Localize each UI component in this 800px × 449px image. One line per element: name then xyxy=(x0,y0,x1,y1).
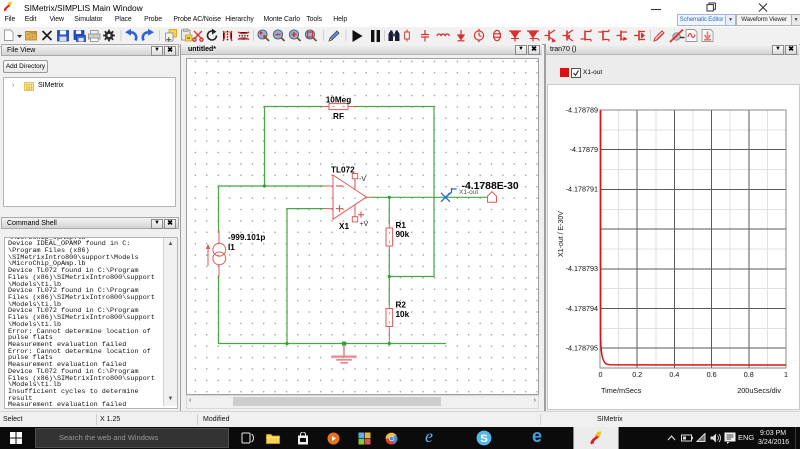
svg-text:-4.178793: -4.178793 xyxy=(566,264,598,273)
zoom area xyxy=(289,30,300,41)
node junction at R1/R2/feedback xyxy=(388,275,391,278)
svg-text:-4.178795: -4.178795 xyxy=(566,344,598,353)
canvas with dot grid xyxy=(186,58,539,395)
fence icon xyxy=(238,32,249,40)
Schematic Editor selector button xyxy=(677,14,726,26)
graph area xyxy=(547,84,800,410)
svg-text:-4.17879: -4.17879 xyxy=(570,145,598,154)
close X xyxy=(43,31,52,40)
SIMetrix active app xyxy=(573,427,619,449)
start button xyxy=(10,432,22,444)
resistor RF xyxy=(322,104,356,110)
npn transistor button xyxy=(545,30,556,42)
svg-text:90k: 90k xyxy=(396,230,410,239)
svg-text:+V: +V xyxy=(360,221,369,228)
pjfet button xyxy=(599,30,610,42)
svg-text:I1: I1 xyxy=(228,243,235,252)
pin -V power pin of X1 xyxy=(354,179,356,190)
window buttons xyxy=(645,2,775,12)
wire feedback top horizontal xyxy=(265,106,323,108)
clock source button xyxy=(474,29,483,42)
zoom out xyxy=(273,30,284,41)
wire I1 vertical xyxy=(218,186,220,231)
node junction R2/ground rail xyxy=(388,342,391,345)
svg-text:-4.178791: -4.178791 xyxy=(566,185,598,194)
op-amp X1 TL072 xyxy=(324,174,370,222)
pencil blue xyxy=(329,31,339,41)
Waveform Viewer selector button xyxy=(736,14,792,26)
wifi xyxy=(696,433,707,442)
probe X1-out (fixed probe marker) xyxy=(442,189,457,202)
save all floppies xyxy=(74,31,86,42)
capacitor button xyxy=(421,30,429,42)
legend xyxy=(560,68,569,77)
svg-text:Time/mSecs: Time/mSecs xyxy=(601,386,642,395)
inductor button xyxy=(437,34,449,36)
sine document icon xyxy=(686,30,697,42)
task view xyxy=(241,432,254,444)
scrollbar xyxy=(163,238,177,406)
ground/source arrow button xyxy=(458,30,465,41)
battery xyxy=(681,434,693,442)
wire feedback right vertical xyxy=(433,107,435,277)
x axis labels xyxy=(599,370,789,379)
paste xyxy=(182,29,193,41)
new document xyxy=(5,30,14,41)
wire ground rail xyxy=(219,343,446,345)
svg-text:0.4: 0.4 xyxy=(669,370,679,379)
copy xyxy=(166,30,177,42)
svg-text:R2: R2 xyxy=(396,301,407,310)
wire feedback bottom horizontal xyxy=(389,276,434,278)
ground xyxy=(333,342,356,363)
gear options xyxy=(103,30,115,42)
igbt button xyxy=(617,31,628,41)
svg-text:0: 0 xyxy=(599,370,603,379)
photos multicolor xyxy=(358,432,371,445)
minor grid xyxy=(600,110,786,368)
media orange xyxy=(327,432,340,445)
resistor R1 xyxy=(386,224,393,251)
undo xyxy=(130,32,136,40)
node junction noninverting/ground rail xyxy=(285,342,288,345)
svg-text:-4.178789: -4.178789 xyxy=(566,105,598,114)
diode button xyxy=(509,31,521,42)
svg-text:R1: R1 xyxy=(396,221,407,230)
chrome xyxy=(385,432,398,445)
resistor R2 xyxy=(386,305,393,343)
red component buttons xyxy=(405,29,645,42)
svg-text:-999.101p: -999.101p xyxy=(228,233,265,242)
wire feedback left vertical xyxy=(264,107,266,187)
wire output xyxy=(371,196,488,198)
major grid xyxy=(600,110,786,368)
redo xyxy=(143,32,149,40)
svg-text:0.8: 0.8 xyxy=(744,370,754,379)
svg-text:-4.178794: -4.178794 xyxy=(566,304,598,313)
wire R1 branch vertical xyxy=(388,197,390,223)
svg-text:-4.1788E-30: -4.1788E-30 xyxy=(462,181,519,192)
svg-text:TL072: TL072 xyxy=(331,166,355,175)
notification xyxy=(724,432,736,444)
probe pencil icon xyxy=(670,30,685,43)
tray chevron xyxy=(667,435,676,441)
pin +V power pin of X1 xyxy=(354,205,356,217)
svg-text:X1-out / E-30V: X1-out / E-30V xyxy=(558,211,565,257)
y axis labels xyxy=(566,105,598,352)
pause xyxy=(371,30,380,42)
svg-text:RF: RF xyxy=(333,112,344,121)
svg-text:10Meg: 10Meg xyxy=(326,96,351,105)
wire non-inverting input vertical xyxy=(286,209,288,344)
zener diode button xyxy=(527,31,540,42)
node junction at output/R1 xyxy=(388,196,391,199)
speaker xyxy=(710,433,721,443)
svg-text:1: 1 xyxy=(784,370,788,379)
schematic h-scrollbar xyxy=(186,395,539,409)
wire non-inverting input horizontal xyxy=(287,208,323,210)
thyristor button xyxy=(634,31,645,41)
zoom fit xyxy=(305,30,316,41)
battery button xyxy=(493,30,501,40)
svg-text:0.2: 0.2 xyxy=(632,370,642,379)
svg-text:200uSecs/div: 200uSecs/div xyxy=(737,386,781,395)
svg-text:-V: -V xyxy=(359,176,366,183)
curve X1-out xyxy=(601,110,786,365)
plot border xyxy=(600,110,786,368)
node junction at feedback/inverting input xyxy=(263,184,266,187)
refresh xyxy=(207,30,218,41)
store xyxy=(297,432,309,445)
svg-text:S: S xyxy=(480,433,488,445)
zoom in xyxy=(258,30,269,41)
open folder xyxy=(26,32,37,41)
explorer xyxy=(266,433,280,444)
edge xyxy=(532,426,542,447)
svg-text:0.6: 0.6 xyxy=(707,370,717,379)
binoculars xyxy=(389,31,400,42)
probe document icon xyxy=(702,30,713,42)
pnp transistor button xyxy=(563,30,574,41)
red pencil probe xyxy=(654,31,664,41)
svg-text:10k: 10k xyxy=(396,310,410,319)
search box xyxy=(35,428,229,448)
play xyxy=(353,30,363,42)
save floppy xyxy=(58,31,69,42)
njfet button xyxy=(581,30,592,42)
printer xyxy=(89,31,101,42)
svg-text:X1: X1 xyxy=(339,222,349,231)
resistor button xyxy=(405,30,410,42)
skype xyxy=(476,430,492,446)
wire segments icon xyxy=(223,31,232,41)
current source I1 xyxy=(206,231,226,277)
wire inverting input horizontal xyxy=(219,185,324,187)
wire R2 branch vertical xyxy=(388,277,390,305)
scissors xyxy=(193,31,203,41)
IE xyxy=(425,426,433,447)
terminal output pin xyxy=(488,192,497,203)
